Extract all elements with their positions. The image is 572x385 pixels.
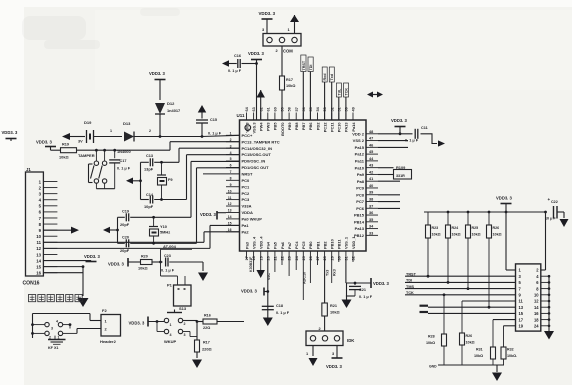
svg-text:PB9: PB9 [287, 122, 292, 130]
svg-text:PC7: PC7 [356, 199, 365, 204]
resistor R26b 10k lower [460, 333, 465, 345]
svg-text:PC3: PC3 [242, 197, 251, 202]
wire Rxd to MCU [324, 82, 326, 120]
svg-text:R25: R25 [472, 226, 479, 230]
svg-text:PC13_TAMPER RTC: PC13_TAMPER RTC [242, 139, 280, 144]
ground arrow bottom right [496, 365, 498, 372]
wire battery rail to MCU VBAT pin1 [160, 136, 202, 138]
svg-text:PB6: PB6 [308, 122, 313, 130]
svg-text:R23: R23 [432, 226, 439, 230]
svg-text:5MHz: 5MHz [160, 230, 170, 235]
svg-text:VDD3. 3: VDD3. 3 [259, 11, 276, 16]
svg-text:Pa3: Pa3 [244, 241, 249, 249]
svg-text:15: 15 [36, 264, 41, 269]
svg-text:PC5: PC5 [301, 241, 306, 249]
svg-text:26: 26 [309, 256, 313, 260]
wire IDK pin1 to ground arrow [312, 346, 314, 357]
wire pin1 to VDD3.3 [506, 269, 516, 271]
wire Pa10 pin 43 [378, 167, 394, 169]
wire Pa7 stub down [295, 259, 297, 270]
svg-text:36: 36 [369, 211, 373, 215]
svg-text:55: 55 [309, 107, 313, 111]
wire C11 to net arrow [421, 134, 438, 144]
svg-text:Pa10: Pa10 [355, 165, 365, 170]
J1 pin stubs [43, 181, 57, 183]
tag TCK vertical net label [344, 83, 349, 97]
wire PC6 pin 37 [378, 207, 400, 209]
svg-text:51: 51 [337, 107, 341, 111]
svg-text:S13: S13 [179, 306, 187, 311]
svg-text:8: 8 [230, 177, 232, 181]
svg-text:PW3: PW3 [266, 122, 271, 131]
svg-text:R17: R17 [286, 78, 293, 82]
wire VSS_2 pin 47 [378, 140, 408, 142]
connector IDK 3-pin header [306, 331, 343, 346]
wire Pa15 pin 46 [378, 146, 408, 148]
wire J1 pin9 with net arrow [43, 229, 71, 231]
resistor R24 10k [447, 212, 449, 225]
svg-text:15: 15 [519, 311, 524, 316]
svg-text:10kΩ: 10kΩ [286, 84, 295, 88]
svg-text:18: 18 [534, 317, 539, 322]
svg-text:42: 42 [369, 170, 373, 174]
ground rail bottom right [438, 364, 504, 366]
svg-text:AT-004: AT-004 [163, 244, 177, 249]
svg-text:NRST: NRST [242, 171, 253, 176]
terminator bar pin13 [420, 305, 429, 307]
svg-text:V30.3: V30.3 [244, 122, 249, 133]
svg-text:KF X1: KF X1 [48, 346, 58, 350]
wire VDD_4 column to VDD3.3 and C18 [267, 259, 269, 318]
svg-text:2: 2 [149, 129, 151, 133]
svg-text:PB8: PB8 [294, 122, 299, 130]
resistor R25 10k [467, 212, 469, 225]
svg-text:63: 63 [252, 107, 256, 111]
resistor R19 10k tamper pull-up [51, 149, 61, 151]
svg-text:22: 22 [281, 256, 285, 260]
svg-text:TdL: TdL [337, 88, 341, 96]
svg-text:17: 17 [519, 317, 524, 322]
wire TDI to MCU [309, 72, 311, 121]
svg-text:10 μ F: 10 μ F [545, 217, 556, 221]
svg-text:PC9: PC9 [356, 186, 365, 191]
resistor R31 10k lower [491, 347, 496, 359]
svg-text:3: 3 [184, 333, 186, 337]
power VDD3.3 right of C21 [370, 278, 372, 288]
wire PA3 label column [253, 259, 255, 272]
svg-text:13: 13 [228, 209, 232, 213]
svg-text:Pa8: Pa8 [357, 179, 365, 184]
svg-text:U11: U11 [237, 113, 246, 118]
svg-text:10kΩ: 10kΩ [59, 155, 69, 160]
svg-text:Pa11: Pa11 [355, 158, 365, 163]
wire TRST to pin3 [405, 275, 516, 277]
svg-text:VSS_1: VSS_1 [344, 236, 349, 249]
tag TDI vertical net label [308, 57, 313, 72]
svg-text:14: 14 [36, 258, 41, 263]
svg-text:VDD3. 3: VDD3. 3 [2, 130, 18, 135]
svg-text:VDD3. 3: VDD3. 3 [496, 196, 512, 201]
svg-text:C19: C19 [122, 210, 129, 214]
svg-text:10: 10 [228, 189, 232, 193]
svg-text:R16: R16 [204, 314, 211, 318]
svg-text:10kΩ: 10kΩ [330, 310, 340, 315]
svg-text:29: 29 [330, 256, 334, 260]
wire PC5 stub down [309, 259, 311, 283]
svg-text:13: 13 [519, 305, 524, 310]
svg-text:48: 48 [369, 130, 373, 134]
svg-text:0. 1 μ F: 0. 1 μ F [117, 167, 131, 171]
svg-text:PB5: PB5 [273, 122, 278, 130]
net arrow left of C16 [222, 60, 229, 67]
svg-text:12: 12 [228, 202, 232, 206]
svg-text:37: 37 [369, 204, 373, 208]
svg-text:0. 1 μ F: 0. 1 μ F [161, 269, 175, 273]
wire PB1 Tx3 column [324, 259, 326, 303]
svg-text:CON16: CON16 [23, 281, 40, 287]
wire PC8 pin 39 [378, 194, 400, 196]
svg-text:VDD_1: VDD_1 [351, 236, 356, 249]
MCU right pin stubs [366, 133, 378, 135]
wire tamper rail to PC13 [77, 149, 171, 151]
svg-text:20: 20 [266, 256, 270, 260]
svg-text:PCC+: PCC+ [242, 133, 253, 138]
svg-text:5: 5 [230, 157, 232, 161]
svg-text:VDD 2: VDD 2 [352, 131, 365, 136]
svg-text:Txd: Txd [330, 73, 334, 80]
resistor R16 22 ohm [203, 319, 217, 324]
wire PB0 stub down [317, 259, 319, 265]
svg-text:VDD3. 3: VDD3. 3 [248, 51, 264, 56]
wire VDD rail [424, 211, 546, 213]
wire resistor to MCU top pin [281, 90, 283, 120]
svg-text:0. 1 μ F: 0. 1 μ F [228, 69, 242, 73]
wire 5M left rail with arrow [117, 217, 119, 243]
svg-text:P1: P1 [167, 283, 173, 288]
svg-text:10kΩ: 10kΩ [466, 341, 475, 345]
svg-text:F2: F2 [102, 308, 107, 313]
resistor R21 10k boot [322, 303, 328, 316]
wire TDI to pin5 [405, 281, 516, 283]
svg-text:PB0: PB0 [308, 241, 313, 249]
tag TdL vertical net label [336, 83, 341, 97]
svg-text:IDK: IDK [347, 338, 355, 343]
crystal F9 32kHz [161, 162, 163, 175]
svg-text:BOOT0: BOOT0 [280, 123, 285, 136]
svg-text:PA13: PA13 [344, 122, 349, 132]
op-amp U11 MCU body (LQFP64) [240, 120, 367, 251]
ground arrow right of C23 [202, 262, 204, 271]
svg-text:10kΩ: 10kΩ [452, 233, 461, 237]
svg-text:D13: D13 [123, 121, 131, 126]
svg-text:ADC10: ADC10 [302, 272, 306, 284]
svg-text:Pa1: Pa1 [242, 223, 250, 228]
svg-text:62: 62 [259, 107, 263, 111]
svg-text:R26: R26 [466, 334, 473, 338]
svg-text:VDD3. 3: VDD3. 3 [241, 289, 257, 294]
capacitor C11 0.1uF [414, 129, 416, 139]
svg-text:1: 1 [170, 323, 172, 327]
svg-text:23: 23 [288, 256, 292, 260]
svg-text:Pa9: Pa9 [357, 172, 365, 177]
svg-text:46: 46 [369, 143, 373, 147]
wire 32k bottom [141, 199, 149, 201]
wire TCK to pin9 [405, 294, 516, 296]
svg-text:2: 2 [184, 322, 186, 326]
svg-text:58: 58 [288, 107, 292, 111]
svg-text:13: 13 [36, 252, 41, 257]
svg-text:4: 4 [56, 320, 58, 324]
svg-text:20pF: 20pF [120, 222, 130, 227]
svg-text:R24: R24 [452, 226, 459, 230]
svg-text:57: 57 [295, 107, 299, 111]
wire J1 pin11 to MCU Pa2 [43, 241, 204, 243]
wire 5M bottom [118, 242, 125, 244]
svg-text:C21: C21 [359, 288, 366, 292]
svg-text:PB15: PB15 [354, 213, 365, 218]
svg-text:VDDA: VDDA [242, 210, 253, 215]
svg-text:10: 10 [534, 293, 539, 298]
tag Rxd vertical net label [322, 67, 327, 82]
svg-text:VDD3. 3: VDD3. 3 [129, 321, 145, 326]
svg-text:C20: C20 [122, 236, 129, 240]
MCU bottom pin stubs [246, 251, 248, 259]
svg-text:52: 52 [330, 107, 334, 111]
svg-text:C16: C16 [234, 54, 241, 58]
resistor R28 10k lower [442, 334, 447, 346]
JTAG even pin ground stubs [541, 275, 549, 277]
svg-text:28: 28 [323, 256, 327, 260]
svg-text:VDD3. 3: VDD3. 3 [200, 212, 216, 217]
svg-text:+: + [548, 197, 551, 202]
svg-text:49: 49 [352, 107, 356, 111]
wire pin11 net [462, 300, 516, 302]
diode D12 1n4017 vertical [155, 103, 165, 114]
wire IDK pin3 to VDD3.3 [336, 346, 338, 359]
svg-text:13pF: 13pF [144, 167, 154, 172]
svg-text:Rxd: Rxd [323, 73, 327, 81]
svg-text:21: 21 [274, 256, 278, 260]
wire C23 down to P1 [160, 262, 162, 276]
wire pin19 to R32 [504, 325, 516, 327]
svg-text:R17: R17 [203, 341, 210, 345]
svg-text:Rx3: Rx3 [333, 269, 337, 276]
wire from AT-004 down [160, 250, 162, 263]
wire TMS to pin7 [405, 288, 516, 290]
svg-text:10kΩ: 10kΩ [493, 233, 502, 237]
svg-text:PC11: PC11 [330, 122, 335, 132]
svg-text:R26: R26 [493, 226, 500, 230]
svg-text:3: 3 [51, 327, 53, 331]
terminator bar pin15 [420, 311, 429, 313]
svg-text:C11: C11 [421, 126, 428, 130]
svg-text:59: 59 [281, 107, 285, 111]
wire Txd to MCU [331, 82, 333, 120]
svg-text:R32: R32 [507, 348, 514, 352]
svg-text:1n4017: 1n4017 [167, 108, 180, 113]
wire PC4 ADC10 column [302, 259, 304, 300]
svg-text:PD1/OSC OUT: PD1/OSC OUT [242, 165, 270, 170]
svg-text:0. 1 μ F: 0. 1 μ F [359, 295, 373, 299]
svg-text:60: 60 [274, 107, 278, 111]
wire pin15 net [428, 312, 516, 314]
svg-text:40: 40 [369, 184, 373, 188]
svg-text:39: 39 [369, 191, 373, 195]
ground arrow below JTAG [544, 331, 554, 340]
svg-text:R19: R19 [62, 143, 69, 147]
connector JP JTAG body [516, 264, 541, 331]
svg-text:19: 19 [519, 324, 524, 329]
svg-text:3V: 3V [78, 140, 83, 144]
resistor R17b 220 ohm [195, 340, 200, 352]
svg-text:PC4: PC4 [294, 241, 299, 249]
svg-text:PC15/OSC.OUT: PC15/OSC.OUT [242, 152, 272, 157]
svg-text:10kΩ: 10kΩ [432, 233, 441, 237]
wire Pa6 stub down [288, 259, 290, 276]
svg-text:Header2: Header2 [100, 339, 117, 344]
svg-text:61: 61 [266, 107, 270, 111]
wire TdL to MCU [338, 97, 340, 120]
capacitor C17 0.1uF tamper filter [114, 150, 116, 158]
svg-text:Pa14: Pa14 [351, 122, 356, 132]
svg-text:VDD3. 3: VDD3. 3 [373, 281, 389, 286]
svg-text:30: 30 [337, 256, 341, 260]
svg-text:10kΩ: 10kΩ [474, 354, 483, 358]
svg-text:GND: GND [429, 365, 437, 369]
svg-text:12: 12 [534, 299, 539, 304]
wire TCK to MCU [345, 97, 347, 120]
svg-text:16: 16 [36, 271, 41, 276]
svg-text:C15: C15 [210, 118, 217, 122]
svg-text:Y10: Y10 [160, 224, 167, 229]
wire TRST to MCU [302, 72, 304, 121]
wire Pa9 pin 42 through R109 [378, 174, 394, 176]
svg-text:Pa12: Pa12 [355, 152, 365, 157]
svg-text:D19: D19 [84, 120, 92, 125]
svg-text:Pa15: Pa15 [355, 145, 365, 150]
bidirectional net arrow marker [369, 94, 381, 96]
svg-text:16: 16 [534, 311, 539, 316]
wire J1 pin16 down with net arrow [43, 272, 83, 274]
svg-text:PC0: PC0 [242, 178, 251, 183]
switch S13 WKUP [167, 312, 182, 314]
svg-text:C18: C18 [276, 304, 283, 308]
wire 32k top [141, 161, 149, 163]
ground arrow below C18 [263, 318, 273, 327]
svg-text:C22: C22 [551, 200, 558, 204]
svg-text:25: 25 [302, 256, 306, 260]
svg-text:14: 14 [228, 215, 232, 219]
svg-text:V5C: V5C [267, 273, 271, 280]
svg-text:11: 11 [519, 299, 524, 304]
svg-text:VDD3. 3: VDD3. 3 [108, 262, 124, 267]
svg-text:VDD3. 3: VDD3. 3 [149, 71, 165, 76]
svg-text:VDD3. 3: VDD3. 3 [36, 140, 52, 145]
svg-text:11: 11 [36, 240, 41, 245]
svg-text:0. 1 μ F: 0. 1 μ F [276, 311, 290, 315]
svg-text:PB2: PB2 [322, 241, 327, 249]
svg-text:VDD_4: VDD_4 [259, 236, 264, 249]
wire J1 pin12 to MCU Pa1 [43, 247, 210, 249]
svg-text:45: 45 [369, 150, 373, 154]
wire 5M top [118, 216, 125, 218]
wire PB2 Rx3 column [331, 259, 333, 283]
svg-text:PC6: PC6 [356, 206, 365, 211]
svg-text:10pF: 10pF [144, 204, 154, 209]
connector COM 3-pin header [263, 34, 301, 47]
svg-text:D12: D12 [167, 101, 175, 106]
svg-text:PD2: PD2 [315, 122, 320, 130]
svg-text:20pF: 20pF [120, 248, 130, 253]
svg-text:V33A: V33A [242, 204, 252, 209]
ground bar under key [54, 336, 56, 339]
wire Pa5 stub down [281, 259, 283, 265]
wire PB10 stub down [338, 259, 340, 262]
svg-text:C17: C17 [120, 159, 127, 163]
svg-text:PB10: PB10 [330, 239, 335, 249]
wire pin2 to VDD rail [541, 269, 546, 271]
switch KEY dual [33, 313, 91, 315]
svg-text:Pa5: Pa5 [273, 241, 278, 249]
MCU top pin stubs [246, 113, 248, 121]
svg-text:C23: C23 [164, 254, 171, 258]
svg-text:Tx3: Tx3 [325, 270, 329, 276]
svg-text:1: 1 [110, 129, 112, 133]
svg-text:10kΩ.: 10kΩ. [507, 354, 517, 358]
svg-text:31: 31 [345, 256, 349, 260]
capacitor C21 0.1uF [354, 283, 356, 285]
wire pin17 to R31 [493, 319, 516, 321]
svg-text:PB7: PB7 [301, 123, 306, 131]
svg-text:PC14/OSC32_IN: PC14/OSC32_IN [242, 146, 273, 151]
svg-text:PC2: PC2 [242, 191, 251, 196]
svg-text:WKUP: WKUP [164, 339, 177, 344]
svg-text:Pa6: Pa6 [280, 241, 285, 249]
wire pin13 net [428, 306, 516, 308]
svg-text:4: 4 [170, 333, 172, 337]
svg-text:11: 11 [228, 196, 232, 200]
wire PC7 pin 38 [378, 201, 400, 203]
svg-text:TAMPER: TAMPER [78, 153, 95, 158]
svg-text:VSS_4: VSS_4 [251, 236, 256, 249]
svg-text:R21: R21 [330, 304, 337, 308]
svg-text:PC10: PC10 [337, 123, 342, 133]
resistor R23 10k [427, 212, 429, 225]
svg-text:PC8: PC8 [356, 192, 365, 197]
svg-text:10kΩ: 10kΩ [472, 233, 481, 237]
svg-text:43: 43 [369, 164, 373, 168]
svg-text:220Ω: 220Ω [202, 347, 212, 352]
svg-text:35: 35 [369, 218, 373, 222]
svg-text:PC12: PC12 [322, 122, 327, 133]
ground arrow right of C22 [563, 212, 565, 218]
wire ground column right of JTAG [548, 276, 550, 331]
svg-text:331R: 331R [396, 174, 405, 178]
crystal Y10 5MHz [153, 217, 155, 226]
svg-text:6: 6 [230, 164, 232, 168]
svg-text:9: 9 [230, 183, 232, 187]
svg-text:J1: J1 [26, 167, 31, 172]
capacitor C18 0.1uF [262, 305, 274, 307]
svg-text:38: 38 [369, 198, 373, 202]
svg-text:PC1: PC1 [242, 184, 251, 189]
svg-text:Pa7: Pa7 [287, 242, 292, 249]
svg-text:VDD3. 3: VDD3. 3 [84, 254, 100, 259]
net arrow down VSS4 [260, 259, 262, 270]
ground arrow below R17b [192, 360, 202, 369]
wire PC9 pin 40 [378, 180, 400, 182]
svg-text:PB14: PB14 [354, 219, 365, 224]
